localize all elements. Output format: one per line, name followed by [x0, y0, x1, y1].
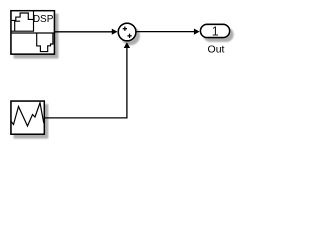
DSP icon top-left inner square	[11, 11, 34, 32]
noise waveform icon	[11, 103, 44, 126]
wire from sum to out port	[136, 31, 194, 33]
DSP icon top staircase wave	[11, 13, 34, 20]
DSP icon bottom staircase pulse	[37, 33, 53, 52]
wire from noise source to sum bottom port	[44, 48, 127, 118]
out port block "1"	[201, 24, 230, 37]
plus sign for bottom input port	[127, 34, 131, 38]
plus sign for left input port	[123, 27, 127, 31]
svg-text:1: 1	[212, 25, 219, 39]
DSP icon top-left step corner	[15, 21, 20, 31]
svg-text:DSP: DSP	[33, 14, 54, 25]
arrowhead into sum bottom port	[124, 42, 130, 48]
arrowhead into out port	[194, 29, 200, 35]
wire from DSP block to sum	[54, 31, 112, 33]
svg-text:Out: Out	[208, 44, 225, 56]
sum block S1	[118, 23, 136, 41]
block U2 noise source body	[11, 101, 44, 134]
DSP icon middle divider line	[11, 32, 54, 34]
arrowhead into sum left port	[112, 29, 118, 35]
block U1 "DSP" filter block body	[11, 11, 54, 54]
